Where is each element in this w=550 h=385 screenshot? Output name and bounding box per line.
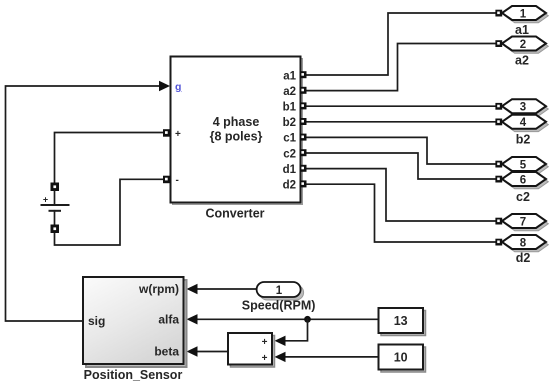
Position_Sensor block name label — [84, 368, 183, 382]
wire b1 to outport 3 — [305, 105, 496, 107]
svg-text:+: + — [262, 353, 268, 364]
svg-text:{8 poles}: {8 poles} — [210, 130, 263, 144]
inport oval Speed(RPM) — [257, 282, 304, 300]
svg-text:-: - — [176, 175, 179, 186]
wire a1 to outport 1 — [305, 13, 496, 75]
converter gate label g — [175, 81, 181, 93]
svg-text:10: 10 — [394, 351, 408, 365]
Position_Sensor block — [83, 277, 187, 367]
converter + input label — [175, 129, 181, 140]
svg-text:+: + — [175, 129, 181, 140]
net label b2 — [516, 132, 531, 146]
outport 3 — [495, 99, 548, 116]
svg-text:d2: d2 — [283, 180, 296, 192]
svg-text:a1: a1 — [283, 70, 296, 82]
svg-text:Position_Sensor: Position_Sensor — [84, 368, 183, 382]
outport 8 — [495, 235, 548, 252]
converter output port labels a1 a2 b1 b2 c1 c2 d1 d2 — [283, 70, 297, 191]
net label a1 — [515, 23, 529, 37]
wire d2 to outport 8 — [305, 184, 496, 242]
svg-text:3: 3 — [520, 102, 526, 114]
svg-text:w(rpm): w(rpm) — [138, 282, 179, 296]
constant block 13 — [379, 308, 426, 336]
wire c1 to outport 5 — [305, 137, 496, 164]
svg-text:b2: b2 — [516, 132, 531, 146]
converter - port square — [163, 176, 171, 184]
svg-text:Speed(RPM): Speed(RPM) — [242, 299, 316, 313]
converter block name label — [205, 207, 264, 221]
svg-text:c2: c2 — [283, 148, 296, 160]
svg-text:b2: b2 — [283, 117, 296, 129]
svg-text:6: 6 — [520, 174, 526, 186]
Speed(RPM) label — [242, 299, 316, 313]
svg-text:c1: c1 — [283, 133, 296, 145]
wire b2 to outport 4 — [305, 121, 496, 123]
svg-text:g: g — [175, 81, 181, 93]
converter + port square — [163, 129, 171, 137]
wire constant 13 to alfa input — [187, 314, 379, 324]
outport 5 — [495, 157, 548, 174]
svg-text:a1: a1 — [515, 23, 529, 37]
net label c2 — [516, 190, 530, 204]
svg-text:8: 8 — [520, 237, 527, 249]
wire junction to sum top + input — [275, 319, 308, 346]
outport 2 — [495, 37, 548, 54]
wire a2 to outport 2 — [305, 44, 496, 91]
wire Speed(RPM) to w(rpm) input — [187, 284, 257, 294]
svg-text:2: 2 — [520, 39, 526, 51]
svg-text:sig: sig — [88, 314, 105, 328]
wire battery minus to Converter - port — [55, 179, 164, 245]
junction node on alfa wire — [304, 316, 311, 323]
svg-text:+: + — [262, 337, 268, 348]
outport 7 — [495, 214, 548, 231]
outport 1 — [495, 6, 548, 23]
svg-text:7: 7 — [520, 216, 526, 228]
battery B1 (DC voltage source) — [42, 183, 69, 233]
svg-text:4: 4 — [520, 117, 527, 129]
wire sig to g (feedback from Position_Sensor output to Converter gate) — [6, 81, 171, 321]
wire battery plus to Converter + port — [55, 133, 164, 187]
svg-text:a2: a2 — [283, 86, 296, 98]
wire sum output to beta input — [187, 346, 229, 356]
svg-text:13: 13 — [394, 314, 408, 328]
svg-text:alfa: alfa — [158, 312, 179, 326]
outport 4 — [495, 115, 548, 132]
constant block 10 — [379, 345, 426, 373]
svg-text:5: 5 — [520, 159, 527, 171]
sum block S1 — [228, 333, 275, 367]
svg-text:1: 1 — [276, 285, 283, 297]
svg-text:a2: a2 — [515, 53, 529, 67]
net label a2 — [515, 53, 529, 67]
wire c2 to outport 6 — [305, 153, 496, 179]
wire d1 to outport 7 — [305, 169, 496, 221]
converter - input label — [176, 175, 179, 186]
svg-text:Converter: Converter — [205, 207, 264, 221]
svg-text:c2: c2 — [516, 190, 530, 204]
svg-text:4 phase: 4 phase — [213, 115, 260, 129]
converter output port squares — [300, 71, 307, 187]
svg-text:d2: d2 — [516, 251, 531, 265]
outport 6 — [495, 172, 548, 189]
converter block U1 — [171, 57, 303, 205]
svg-text:1: 1 — [520, 8, 527, 20]
net label d2 — [516, 251, 531, 265]
svg-text:+: + — [43, 195, 48, 205]
svg-text:b1: b1 — [283, 102, 297, 114]
svg-text:d1: d1 — [283, 164, 297, 176]
wire constant 10 to sum bottom + input — [275, 352, 379, 362]
svg-text:beta: beta — [154, 345, 179, 359]
